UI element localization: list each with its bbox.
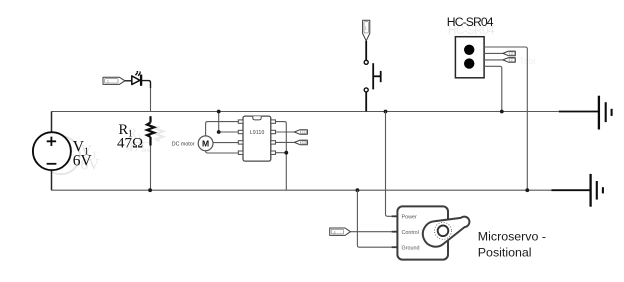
svg-text:10: 10 <box>302 141 306 145</box>
connector tag 10 <box>294 140 307 145</box>
wire: top rail to IC pin2 <box>219 112 239 133</box>
connector tag echo <box>503 58 515 63</box>
svg-text:2: 2 <box>511 58 513 62</box>
connector tag 4 (servo control) <box>330 228 351 235</box>
IC pin 5 <box>271 120 276 123</box>
svg-text:M: M <box>202 138 209 148</box>
wire: tag to servo control <box>350 231 397 233</box>
svg-text:Ground: Ground <box>402 245 420 251</box>
junction pin2 corner <box>217 130 221 134</box>
junction servo gnd/bottom rail <box>356 188 360 192</box>
wire: pin7 to tag <box>276 141 295 143</box>
svg-text:HC-SR04: HC-SR04 <box>447 15 494 29</box>
servo M2 microservo <box>392 206 448 259</box>
svg-text:Microservo -: Microservo - <box>478 229 546 243</box>
ghost offset duplicate of R1 <box>126 126 163 156</box>
pushbutton S1 <box>364 41 381 112</box>
wire: motor right to IC pin3 <box>213 142 238 144</box>
svg-text:DC motor: DC motor <box>172 142 195 148</box>
wire: HC-SR04 vcc down to bottom rail <box>484 47 527 190</box>
IC pin 2 <box>238 130 243 133</box>
IC pin 3 <box>238 141 243 144</box>
svg-text:Power: Power <box>402 215 417 221</box>
connector tag S1 top <box>363 20 370 41</box>
svg-text:Control: Control <box>402 230 419 236</box>
junction vcc/bottom rail <box>525 188 529 192</box>
IC pin 7 <box>271 141 276 144</box>
motor M1 <box>198 136 213 151</box>
wire: top rail down to servo power <box>386 112 398 217</box>
voltage source V1 <box>33 132 71 170</box>
ultrasonic sensor HC-SR04 <box>455 37 484 78</box>
label V1 6V <box>73 139 93 170</box>
svg-text:6V: 6V <box>73 153 93 170</box>
label Microservo - Positional <box>478 229 546 259</box>
wire: HC-SR04 echo to tag <box>484 59 503 61</box>
wire: HC-SR04 trig to tag <box>484 52 503 54</box>
svg-text:L9110: L9110 <box>250 130 265 136</box>
ghost offset duplicate of V1 <box>42 136 100 174</box>
connector tag 11 <box>294 130 307 135</box>
junction R1/bottom rail <box>148 188 152 192</box>
wire: V1 top lead <box>51 112 53 133</box>
IC pin 1 <box>238 120 243 123</box>
junction top rail x218 <box>217 110 221 114</box>
connector tag trig <box>503 51 515 56</box>
IC pin 4 <box>238 151 243 154</box>
resistor R1 <box>147 116 154 145</box>
wire: top rail <box>51 111 559 113</box>
wire: pin6 to tag <box>276 131 295 133</box>
junction gnd/top rail <box>500 110 504 114</box>
label R1 47ohm <box>117 122 143 152</box>
wire: tag to LED <box>125 80 132 82</box>
wire: bottom rail down to servo ground <box>357 190 397 247</box>
LED D1 <box>132 71 141 86</box>
ground GND1 (top rail) <box>559 96 612 130</box>
wire: R1 bottom to bottom rail <box>150 146 152 191</box>
wire: pin8 to vertical <box>276 152 287 154</box>
wire: HC-SR04 gnd down to top rail <box>484 66 502 111</box>
connector tag J1 (to LED) <box>103 77 125 84</box>
wire: bottom rail <box>51 189 551 191</box>
svg-text:11: 11 <box>302 130 306 134</box>
wire: LED to R1 node <box>141 81 150 88</box>
svg-text:Positional: Positional <box>478 245 532 259</box>
wire: motor top to IC pin1 <box>206 122 239 136</box>
svg-text:3: 3 <box>511 52 513 56</box>
IC pin 8 <box>271 151 276 154</box>
junction top rail x385 <box>384 110 388 114</box>
svg-text:47Ω: 47Ω <box>117 136 143 152</box>
IC pin 6 <box>271 130 276 133</box>
ground GND2 (bottom rail) <box>552 174 603 207</box>
junction pin8 <box>284 151 288 155</box>
wire: motor bottom to IC pin4 <box>206 151 239 153</box>
servo horn <box>423 217 470 247</box>
wire: V1 bottom lead <box>51 170 53 190</box>
wire: pin5 down to bottom rail <box>276 122 287 191</box>
op IC U1 L9110 <box>243 116 271 161</box>
